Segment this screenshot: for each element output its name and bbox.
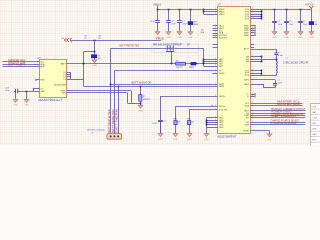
wire down to ground bbox=[26, 91, 28, 99]
svg-text:C?: C? bbox=[278, 21, 280, 23]
wire BATTERY CURRENT OUTPUT bbox=[251, 110, 306, 112]
wire GND pin y=122.5 bbox=[206, 122, 217, 124]
pin stub right y=44.9 bbox=[251, 44, 255, 46]
pin stub L y=74.5 bbox=[67, 74, 71, 76]
junction SYS rail x=286.0 bbox=[286, 9, 288, 11]
svg-text:9: 9 bbox=[252, 48, 253, 50]
wire ILIM down bbox=[189, 110, 191, 121]
svg-text:BATT ALERT: BATT ALERT bbox=[8, 64, 26, 67]
wire CAP2 stub bbox=[251, 84, 264, 86]
svg-text:PMID: PMID bbox=[244, 35, 250, 37]
svg-text:GND: GND bbox=[188, 37, 193, 39]
svg-text:3: 3 bbox=[252, 102, 253, 104]
capacitor C32 VBUS rail bbox=[168, 10, 170, 32]
svg-text:C?: C? bbox=[289, 21, 291, 23]
wire C flying return bbox=[264, 87, 275, 89]
ground below C bbox=[92, 60, 97, 63]
svg-text:CAP1: CAP1 bbox=[244, 79, 250, 82]
pin numbers charger left bbox=[215, 8, 253, 131]
ground below REGN cap bbox=[158, 134, 163, 137]
ground charger GND pins bbox=[204, 134, 209, 137]
junction on VBUS rail x=168.5 bbox=[168, 9, 170, 11]
svg-text:2: 2 bbox=[37, 65, 38, 67]
pin stub nc y=94.0 bbox=[251, 94, 255, 96]
capacitor C (blue body) on VBUS branch bbox=[91, 55, 97, 58]
wire VBUS pin tie vertical bbox=[203, 10, 205, 15]
svg-text:GND: GND bbox=[158, 139, 163, 141]
svg-text:R?: R? bbox=[98, 38, 100, 40]
pin stub SYS y=11.8 bbox=[251, 11, 262, 13]
capacitor C 47nF flying bbox=[273, 84, 277, 86]
svg-text:SYS: SYS bbox=[245, 18, 250, 20]
capacitor C SYS 1 bbox=[274, 10, 276, 32]
wire SYS tie vertical bbox=[261, 10, 263, 19]
wire GND tie vertical bbox=[206, 118, 208, 134]
junction C19/gnd bbox=[26, 91, 28, 93]
wire CAP1 down bbox=[275, 80, 277, 84]
svg-text:9: 9 bbox=[215, 8, 216, 10]
junction CSN/thermistor ground node bbox=[140, 103, 142, 105]
resistor R2 100k horizontal bbox=[176, 62, 186, 65]
svg-text:9: 9 bbox=[215, 58, 216, 60]
svg-text:SDA: SDA bbox=[245, 104, 250, 107]
svg-text:VSYS: VSYS bbox=[305, 2, 314, 6]
svg-text:2: 2 bbox=[215, 121, 216, 123]
svg-text:4: 4 bbox=[215, 123, 216, 125]
svg-text:ACDRV2: ACDRV2 bbox=[219, 36, 228, 39]
svg-text:VAC2: VAC2 bbox=[219, 27, 225, 30]
svg-text:4: 4 bbox=[252, 93, 253, 95]
pin stub SYS2 y=73.0 bbox=[251, 73, 262, 75]
wire CHARGE SOURCE SELECT bbox=[251, 122, 306, 124]
wire FB1 to ground bbox=[190, 25, 192, 32]
svg-text:1: 1 bbox=[252, 10, 253, 12]
junction SYS tie bbox=[261, 11, 263, 13]
svg-text:C?: C? bbox=[163, 121, 165, 123]
wire CSP/CSN to thermistor node bbox=[128, 103, 141, 105]
junction gate pulldown on BATT net bbox=[171, 63, 173, 65]
svg-text:D-: D- bbox=[247, 96, 249, 98]
junction SYS tie bbox=[261, 14, 263, 16]
pin stub SYS2 y=70.7 bbox=[251, 70, 262, 72]
svg-text:MAX17201G+T: MAX17201G+T bbox=[39, 99, 64, 102]
svg-text:600R: 600R bbox=[194, 24, 199, 26]
svg-text:GND: GND bbox=[298, 37, 303, 39]
wire down to C decoupling bbox=[94, 40, 96, 55]
svg-text:PROG: PROG bbox=[219, 106, 225, 108]
svg-text:5: 5 bbox=[252, 114, 253, 116]
svg-text:BATT MONITOR: BATT MONITOR bbox=[132, 81, 152, 84]
wire vertical fuel gauge BATT tie bbox=[83, 52, 85, 87]
svg-text:4: 4 bbox=[252, 83, 253, 85]
wire VBUS stub bbox=[157, 6, 159, 10]
capacitor C REGN 4.7uF bbox=[160, 120, 162, 134]
op-amp/fuel-gauge IC U9 body bbox=[40, 60, 67, 98]
svg-text:6: 6 bbox=[215, 95, 216, 97]
connector J1 DF13-3P body bbox=[107, 134, 122, 140]
pin stub left y=44.9 bbox=[213, 44, 218, 46]
wire inductor out bbox=[276, 73, 278, 75]
svg-text:CAP2: CAP2 bbox=[244, 83, 250, 86]
pin stub PMID y=32.8 bbox=[251, 32, 255, 34]
svg-text:0: 0 bbox=[252, 29, 253, 31]
svg-text:2: 2 bbox=[37, 60, 38, 62]
ground below C31 bbox=[155, 32, 160, 35]
svg-text:1: 1 bbox=[252, 60, 253, 62]
wire MASTER SDA bbox=[251, 105, 303, 107]
svg-text:9: 9 bbox=[215, 108, 216, 110]
svg-text:5: 5 bbox=[215, 34, 216, 36]
pin stub SYS y=18.7 bbox=[251, 18, 262, 20]
svg-text:1: 1 bbox=[215, 10, 216, 12]
svg-text:4: 4 bbox=[215, 83, 216, 85]
pin stub PMID y=25.9 bbox=[251, 25, 255, 27]
wire BATT net fuel gauge to charger bbox=[67, 63, 218, 65]
capacitor C SYS 3 bbox=[300, 10, 302, 32]
wire FB2 to ground bbox=[311, 25, 313, 32]
wire R ILIM to ground bbox=[189, 125, 191, 134]
svg-text:3: 3 bbox=[215, 32, 216, 34]
svg-text:6: 6 bbox=[252, 95, 253, 97]
wire SYS2 tie vertical bbox=[261, 71, 263, 76]
capacitor C19 47nF bbox=[16, 89, 18, 93]
wire GND pin y=124.8 bbox=[206, 124, 217, 126]
junction on VBUS rail x=190.5 bbox=[190, 9, 192, 11]
wire thermistor R to ground bbox=[140, 101, 142, 105]
wire L tie to BATT vertical bbox=[70, 79, 83, 81]
svg-text:3: 3 bbox=[252, 72, 253, 74]
wire SW to inductor bbox=[262, 59, 277, 61]
wire BATT ALERT bbox=[3, 66, 40, 68]
off-sheet power port (red) left of VBUS wire bbox=[64, 38, 71, 42]
svg-text:SM04: SM04 bbox=[189, 67, 194, 69]
connector pin circles bbox=[110, 135, 112, 137]
svg-text:10k: 10k bbox=[177, 121, 180, 123]
inductor L1 coil bbox=[276, 61, 277, 73]
svg-text:MASTER SDA: MASTER SDA bbox=[277, 103, 300, 106]
ground below C19 bbox=[13, 99, 18, 102]
svg-text:BATT PROTECTED: BATT PROTECTED bbox=[108, 109, 111, 133]
wire BATT PROTECTED bbox=[111, 48, 167, 50]
svg-text:GND: GND bbox=[138, 111, 143, 113]
svg-text:0: 0 bbox=[215, 29, 216, 31]
pin stub right y=47.2 bbox=[251, 47, 255, 49]
ferrite bead FB1 (blue body) bbox=[188, 22, 193, 25]
junction SW node bbox=[276, 59, 278, 61]
ground below SYS cap 3 bbox=[298, 32, 303, 35]
junction thermistor/connector pin3 bbox=[118, 86, 120, 88]
wire SW tie vertical bbox=[261, 57, 263, 62]
svg-text:5: 5 bbox=[252, 74, 253, 76]
svg-text:0: 0 bbox=[215, 69, 216, 71]
ground below C33 bbox=[177, 32, 182, 35]
svg-text:3: 3 bbox=[252, 112, 253, 114]
wire CSP bbox=[67, 90, 132, 92]
svg-text:10k/NTC: 10k/NTC bbox=[143, 99, 151, 101]
wire C to ground bbox=[94, 58, 96, 60]
junction SYS tie bbox=[261, 18, 263, 20]
wire PROG down bbox=[175, 106, 177, 120]
svg-text:GND: GND bbox=[40, 91, 45, 93]
svg-text:REV: REV bbox=[312, 134, 317, 136]
wire VBUS to charger pin y=11.8 bbox=[204, 11, 218, 13]
wire connector pin1 vertical bbox=[110, 48, 112, 133]
wire PROG bbox=[176, 106, 218, 108]
svg-text:BTST: BTST bbox=[244, 49, 250, 51]
ground below R PROG bbox=[173, 134, 178, 137]
svg-text:8: 8 bbox=[215, 27, 216, 29]
wire BAT pin1 bbox=[204, 59, 218, 61]
wire connector pin3 vertical bbox=[118, 86, 120, 133]
svg-text:GND: GND bbox=[219, 127, 224, 129]
junction BATT MONITOR bbox=[110, 84, 112, 86]
junction after D1 bbox=[196, 63, 198, 65]
ground below SYS cap 1 bbox=[272, 32, 277, 35]
svg-text:5: 5 bbox=[252, 34, 253, 36]
svg-text:ILIM_HIZ: ILIM_HIZ bbox=[219, 110, 228, 112]
pin stub L y=76.8 bbox=[67, 76, 71, 78]
pin stub left y=37.6 bbox=[213, 37, 218, 39]
svg-text:BATN: BATN bbox=[219, 85, 225, 88]
wire CP pin bbox=[33, 88, 40, 90]
svg-text:GND: GND bbox=[13, 105, 18, 107]
wire BAT pin2 bbox=[204, 61, 218, 63]
wire CHARGE ENABLE bbox=[251, 124, 306, 126]
pin stub left y=73.4 bbox=[213, 73, 218, 75]
ground below FB1 bbox=[188, 32, 193, 35]
capacitor C31 VBUS rail bbox=[157, 10, 159, 32]
svg-text:8: 8 bbox=[252, 17, 253, 19]
pin stub SYS y=16.4 bbox=[251, 16, 262, 18]
wire PGND bbox=[251, 130, 270, 132]
svg-text:8: 8 bbox=[252, 27, 253, 29]
svg-text:VBUS: VBUS bbox=[219, 14, 225, 16]
svg-text:R?2: R?2 bbox=[174, 118, 177, 120]
wire CP down bbox=[33, 89, 35, 91]
svg-text:GND: GND bbox=[309, 37, 314, 39]
svg-text:BATT MONITOR: BATT MONITOR bbox=[112, 109, 115, 133]
svg-text:2k0: 2k0 bbox=[191, 121, 194, 123]
svg-text:0: 0 bbox=[252, 69, 253, 71]
junction VBUS rail to pins bbox=[203, 9, 205, 11]
svg-text:6: 6 bbox=[252, 15, 253, 17]
ground PGND bbox=[267, 134, 272, 137]
wire bootstrap to SW node bbox=[276, 55, 278, 61]
ground thermistor node bbox=[138, 105, 143, 108]
junction SYS rail x=274.8 bbox=[274, 9, 276, 11]
junction thermistor divider bbox=[140, 86, 142, 88]
table: revision/notes block bbox=[311, 104, 320, 146]
wire connector pin2 vertical bbox=[114, 71, 116, 134]
svg-text:7: 7 bbox=[215, 36, 216, 38]
pin stub SW y=56.9 bbox=[251, 56, 262, 58]
svg-text:GND: GND bbox=[204, 139, 209, 141]
svg-text:0: 0 bbox=[252, 110, 253, 112]
svg-text:CELLA/CSPA: CELLA/CSPA bbox=[53, 83, 66, 86]
wire MASTER SDA bbox=[3, 64, 40, 66]
transistor Q1 body outline bbox=[152, 44, 199, 52]
svg-text:CHG: CHG bbox=[312, 118, 317, 120]
pin stub left y=47.2 bbox=[213, 47, 218, 49]
svg-text:0: 0 bbox=[215, 119, 216, 121]
wire BTST bbox=[251, 49, 277, 51]
wire ILIM bbox=[189, 109, 218, 111]
pin stub SW y=59.2 bbox=[251, 59, 262, 61]
junction BATT tie bbox=[83, 63, 85, 65]
resistor R PROG bbox=[174, 121, 177, 125]
junction SYS tie bbox=[261, 16, 263, 18]
svg-text:CSN: CSN bbox=[61, 93, 66, 95]
svg-text:BATT THERM: BATT THERM bbox=[116, 109, 119, 133]
junction GND tie bbox=[206, 124, 208, 126]
pin stub nc y=96.3 bbox=[251, 96, 255, 98]
pin stub left y=30.7 bbox=[213, 30, 218, 32]
capacitor C33 VBUS rail bbox=[179, 10, 181, 32]
pin stub SYS2 y=75.3 bbox=[251, 75, 262, 77]
wire POWER GOOD INDICATOR bbox=[251, 115, 306, 117]
wire return up bbox=[263, 84, 265, 88]
pin stub L y=72.2 bbox=[67, 72, 71, 74]
ground below fuel gauge bbox=[24, 99, 29, 102]
svg-text:9: 9 bbox=[252, 8, 253, 10]
svg-text:6: 6 bbox=[252, 56, 253, 58]
svg-text:VBUS: VBUS bbox=[156, 37, 165, 41]
svg-text:C?: C? bbox=[303, 21, 305, 23]
junction on VBUS rail x=157.5 bbox=[157, 9, 159, 11]
svg-text:4: 4 bbox=[215, 13, 216, 15]
svg-text:1: 1 bbox=[215, 60, 216, 62]
wire VSYS port down bbox=[311, 8, 313, 21]
svg-text:CHARGE ENABLE: CHARGE ENABLE bbox=[271, 122, 297, 125]
pin stub left y=33.0 bbox=[213, 33, 218, 35]
pin stub left y=28.1 bbox=[213, 28, 218, 30]
wire VBUS rail bbox=[158, 9, 204, 11]
svg-text:PGND: PGND bbox=[243, 131, 249, 133]
svg-text:DF13-3P-1.25DS(20): DF13-3P-1.25DS(20) bbox=[87, 130, 105, 132]
svg-text:SYS: SYS bbox=[312, 129, 317, 131]
pin stub PMID y=35.1 bbox=[251, 35, 255, 37]
svg-text:ALRT: ALRT bbox=[40, 65, 46, 68]
svg-text:BQ25792RTWT: BQ25792RTWT bbox=[218, 135, 238, 138]
pin stub SYS y=14.1 bbox=[251, 14, 262, 16]
pin stub left y=35.3 bbox=[213, 35, 218, 37]
wire REGN down to C bbox=[160, 96, 162, 120]
junction BAT pin1 bbox=[203, 59, 205, 61]
wire C19 to ground bbox=[15, 93, 17, 99]
wire to thermistor R bbox=[140, 86, 142, 94]
svg-text:2: 2 bbox=[37, 63, 38, 65]
svg-text:C?: C? bbox=[171, 21, 173, 23]
svg-text:4.7uF: 4.7uF bbox=[152, 123, 158, 125]
junction BAT pin2 bbox=[203, 61, 205, 63]
wire C flying down bbox=[275, 85, 277, 88]
svg-text:GND: GND bbox=[272, 37, 277, 39]
svg-text:REGN: REGN bbox=[219, 96, 225, 98]
wire L-pin tie vertical bbox=[70, 72, 72, 79]
svg-text:9: 9 bbox=[252, 58, 253, 60]
wire R PROG to ground bbox=[175, 125, 177, 134]
pin stub SW y=61.5 bbox=[251, 61, 262, 63]
wire VBUS to charger pin y=14.1 bbox=[204, 14, 218, 16]
svg-text:GND: GND bbox=[177, 37, 182, 39]
svg-text:R?3: R?3 bbox=[187, 118, 190, 120]
wire BAT pin4 bbox=[204, 66, 218, 68]
pin stub SYS y=9.5 bbox=[251, 9, 262, 11]
svg-text:IRLML6402TRPBF: IRLML6402TRPBF bbox=[153, 44, 183, 47]
svg-text:4: 4 bbox=[252, 123, 253, 125]
capacitor C SYS 2 bbox=[286, 10, 288, 32]
ground below SYS cap 2 bbox=[284, 32, 289, 35]
wire thermistor net bbox=[84, 86, 218, 88]
capacitor C bootstrap 0.1uF bbox=[274, 53, 278, 55]
wire to FB1 bbox=[190, 10, 192, 22]
resistor R ILIM bbox=[187, 121, 190, 125]
ferrite bead FB2 (blue body) bbox=[309, 22, 314, 25]
svg-text:5: 5 bbox=[215, 24, 216, 26]
junction GND tie bbox=[206, 120, 208, 122]
svg-text:6: 6 bbox=[215, 85, 216, 87]
junction SYS rail x=300.0 bbox=[300, 9, 302, 11]
svg-text:C?: C? bbox=[182, 21, 184, 23]
svg-text:7: 7 bbox=[215, 117, 216, 119]
wire VBUS to charger pin y=9.5 bbox=[204, 9, 218, 11]
wire Q1 gate to pulldown bbox=[171, 51, 173, 63]
svg-text:NTC: NTC bbox=[312, 140, 317, 142]
wire vertical BAT tie bbox=[203, 48, 205, 66]
svg-text:GND: GND bbox=[267, 139, 272, 141]
svg-text:100 1%: 100 1% bbox=[176, 67, 183, 69]
wire BTST down bbox=[276, 49, 278, 53]
pin stub left y=25.8 bbox=[213, 25, 218, 27]
svg-text:REG: REG bbox=[40, 80, 45, 82]
charger IC U6 body bbox=[218, 7, 251, 134]
svg-text:3: 3 bbox=[215, 62, 216, 64]
resistor R thermistor 10k bbox=[139, 95, 142, 102]
svg-text:SDRV: SDRV bbox=[219, 73, 225, 75]
svg-text:BATT: BATT bbox=[61, 63, 67, 66]
wire GND pin y=120.2 bbox=[206, 120, 217, 122]
svg-text:F?: F? bbox=[84, 38, 86, 40]
junction to fuel gauge tie bbox=[94, 51, 96, 53]
svg-text:GND: GND bbox=[166, 37, 171, 39]
pin stub PMID y=28.2 bbox=[251, 28, 255, 30]
svg-text:6: 6 bbox=[215, 105, 216, 107]
wire BATT MONITOR bbox=[111, 84, 218, 86]
wire PGND down bbox=[269, 131, 271, 134]
pin stub REG bbox=[37, 79, 40, 81]
wire GND pin y=117.9 bbox=[206, 117, 217, 119]
wire inductor out to SYS pins bbox=[262, 75, 277, 77]
wire CSP down bbox=[131, 91, 133, 104]
diode D1 (blue body) bbox=[191, 62, 196, 65]
svg-text:9: 9 bbox=[252, 78, 253, 80]
wire ALERT INTERRUPT bbox=[251, 117, 306, 119]
svg-text:7: 7 bbox=[252, 116, 253, 118]
svg-text:4: 4 bbox=[252, 13, 253, 15]
wire REGN bbox=[160, 96, 218, 98]
svg-text:2: 2 bbox=[252, 121, 253, 123]
svg-text:GND: GND bbox=[284, 37, 289, 39]
pin stub PMID y=30.5 bbox=[251, 30, 255, 32]
svg-text:GND: GND bbox=[173, 139, 178, 141]
wire C19 left stub bbox=[14, 91, 16, 93]
wire MASTER SCL bbox=[251, 103, 303, 105]
svg-text:3: 3 bbox=[215, 72, 216, 74]
svg-text:5: 5 bbox=[252, 25, 253, 27]
junction VBUS pin2 bbox=[203, 11, 205, 13]
junction node on VBUS branch bbox=[94, 40, 96, 42]
svg-text:GND: GND bbox=[187, 139, 192, 141]
